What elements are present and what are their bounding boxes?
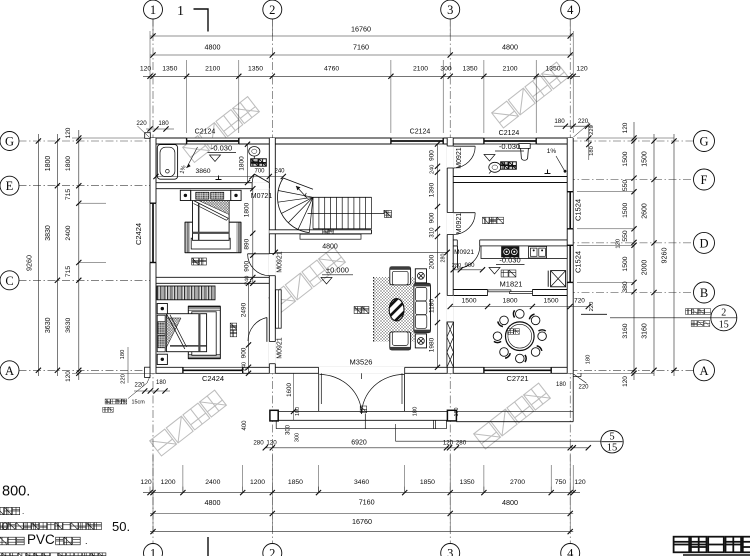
note 散水大样 [686, 309, 711, 315]
svg-text:550: 550 [622, 180, 629, 192]
top extension lines [152, 19, 154, 37]
bedroom1 headboard + pillows [191, 190, 231, 200]
axis circle F right [694, 169, 715, 190]
svg-text:900: 900 [428, 150, 435, 161]
floor drain bath1 [216, 179, 222, 181]
right dim 9260 [673, 134, 675, 376]
left dim details [78, 130, 80, 380]
svg-text:240: 240 [242, 362, 248, 371]
svg-text:900: 900 [244, 260, 251, 271]
axis line E [19, 185, 157, 187]
svg-text:180: 180 [120, 350, 126, 360]
room label bedroom2 卧室 [230, 323, 237, 337]
dining chair [500, 348, 509, 357]
svg-text:220: 220 [578, 118, 589, 125]
room label living 客厅 [354, 307, 369, 314]
svg-text:1350: 1350 [162, 65, 177, 72]
svg-text:1800: 1800 [45, 156, 52, 172]
axis circle D right [694, 232, 715, 253]
svg-text:700: 700 [254, 169, 265, 175]
door opening M0921 bath2 axis3 [447, 146, 454, 168]
room label kitchen 厨房 [501, 270, 516, 277]
svg-text:1500: 1500 [642, 151, 649, 167]
axis circle 1 top [144, 0, 163, 19]
room label dining 餐厅 [508, 329, 520, 335]
floor drain bath2 [545, 173, 551, 175]
door M0921 firewood leaf+arc [453, 212, 475, 214]
svg-text:PVC: PVC [27, 532, 55, 547]
svg-text:800.: 800. [2, 484, 30, 500]
svg-text:16760: 16760 [351, 25, 371, 34]
svg-text:240: 240 [274, 169, 285, 175]
door M3526 entrance double arcs [318, 373, 320, 411]
axis circle E left [0, 176, 19, 195]
left dim line 9260 [37, 134, 39, 376]
svg-text:9260: 9260 [660, 248, 669, 264]
watermark 图纸之家 #1 [183, 97, 260, 163]
axis line D [567, 242, 695, 244]
end table bottom [415, 334, 426, 348]
window C2721 dining bottom [484, 367, 551, 374]
right corner apron step [573, 376, 581, 378]
bedroom2 bench [192, 312, 216, 355]
wall bottom A [150, 367, 573, 373]
bedroom2 dim column [248, 283, 250, 373]
svg-text:.: . [22, 507, 24, 516]
porch step [276, 428, 446, 430]
svg-text:C1524: C1524 [574, 251, 583, 273]
svg-text:180: 180 [556, 382, 567, 388]
left dim groups [56, 134, 58, 376]
svg-text:180: 180 [586, 355, 592, 365]
axis line A [19, 369, 696, 371]
svg-text:2700: 2700 [510, 479, 525, 486]
svg-text:50.: 50. [112, 519, 130, 534]
svg-text:220: 220 [589, 302, 595, 312]
svg-text:120: 120 [65, 127, 72, 138]
svg-text:4800: 4800 [205, 43, 221, 52]
porch column right [447, 410, 456, 421]
bath1 interior dim 3860/700/240 [156, 176, 283, 178]
axis circle 2 top [263, 0, 282, 19]
dining chair [516, 354, 525, 363]
door M0721 leaf+arc [252, 174, 254, 182]
svg-text:M0921: M0921 [456, 147, 463, 169]
NW corner bump [145, 133, 151, 139]
wall D [447, 240, 573, 246]
svg-text:380: 380 [622, 281, 629, 293]
porch column left [270, 410, 278, 421]
door opening M0721 in wall E [252, 182, 269, 189]
svg-text:280: 280 [452, 263, 461, 269]
svg-text:120: 120 [140, 479, 152, 486]
svg-text:1500: 1500 [622, 203, 629, 218]
bottom dim 16760 [150, 531, 573, 533]
axis line 1 [152, 19, 154, 544]
svg-text:3630: 3630 [45, 317, 52, 333]
axis line B [567, 292, 695, 294]
end table top [415, 269, 426, 283]
svg-text:4800: 4800 [205, 498, 221, 507]
svg-text:1500: 1500 [461, 297, 476, 304]
dining chair [516, 310, 525, 319]
svg-text:C1524: C1524 [574, 199, 583, 221]
svg-text:G: G [699, 135, 708, 149]
svg-text:15cm: 15cm [132, 400, 146, 406]
axis circle G right [694, 131, 715, 152]
svg-text:180: 180 [413, 407, 419, 417]
svg-text:16760: 16760 [352, 517, 372, 526]
door opening M3526 entrance wall A [319, 367, 405, 374]
bedroom2 wardrobe [157, 286, 215, 300]
svg-text:750: 750 [555, 479, 567, 486]
watermark 图纸之家 #3 [269, 247, 346, 313]
kitchen fridge [551, 271, 566, 287]
svg-text:120: 120 [616, 239, 622, 249]
bedroom1 nightstand left [180, 190, 190, 200]
svg-text:M0921: M0921 [454, 249, 474, 256]
callout 凸出墙面15cm [105, 399, 127, 404]
svg-text:1800: 1800 [502, 297, 517, 304]
svg-text:280: 280 [456, 440, 467, 447]
watermark 图纸之家 #5 [474, 383, 551, 449]
title 一层平面图 [674, 537, 750, 553]
svg-text:1800: 1800 [239, 156, 246, 171]
window C2124 bath1 top [187, 138, 239, 145]
wall axis2 [269, 138, 275, 373]
svg-text:220: 220 [121, 374, 127, 384]
axis circle 4 bottom [561, 544, 580, 556]
svg-text:C2124: C2124 [499, 130, 520, 137]
svg-text:120: 120 [443, 440, 454, 447]
bedroom2 bed [166, 314, 206, 352]
svg-text:715: 715 [65, 266, 72, 278]
watermark 图纸之家 #2 [492, 62, 569, 128]
axis line 2 [271, 19, 273, 544]
svg-text:220: 220 [589, 125, 595, 135]
svg-text:550: 550 [622, 230, 629, 242]
bottom porch dim 6920 [265, 447, 588, 449]
axis circle A left [0, 361, 19, 380]
bottom extension lines [152, 455, 154, 532]
left corner protrusion [145, 367, 150, 377]
axis circle B right [694, 282, 715, 303]
svg-text:7160: 7160 [353, 43, 369, 52]
svg-text:1: 1 [177, 4, 184, 19]
svg-text:280: 280 [253, 440, 264, 447]
top dim line details [143, 75, 580, 77]
svg-text:2400: 2400 [205, 479, 220, 486]
room label firewood 柴火房 [483, 217, 504, 224]
svg-text:2100: 2100 [413, 65, 428, 72]
svg-text:.: . [85, 536, 88, 546]
svg-text:180: 180 [158, 120, 169, 127]
toilet bath2 [519, 144, 530, 149]
door M0921 kitchen leaf+arc [457, 246, 459, 268]
svg-text:220: 220 [136, 120, 147, 127]
svg-text:300: 300 [295, 433, 301, 442]
kitchen door dim 280/900 [453, 269, 482, 271]
bottom dim groups [150, 513, 573, 515]
svg-text:1800: 1800 [244, 202, 251, 217]
axis line G [19, 140, 696, 142]
svg-text:120: 120 [622, 376, 629, 387]
staircase straight run [313, 196, 372, 198]
svg-text:4760: 4760 [324, 65, 339, 72]
svg-text:2: 2 [721, 307, 726, 318]
svg-text:1350: 1350 [462, 65, 477, 72]
wall axis3 [447, 138, 453, 373]
svg-text:-0.030: -0.030 [499, 256, 520, 265]
axis circle 4 top [561, 0, 580, 19]
tv cabinet living [276, 290, 282, 328]
watermark 图纸之家 #4 [150, 390, 227, 456]
svg-text:300: 300 [440, 65, 452, 72]
kitchen counter [481, 246, 567, 259]
staircase winders fan [277, 178, 309, 233]
svg-text:F: F [701, 173, 708, 187]
svg-text:±0.000: ±0.000 [326, 266, 349, 275]
svg-text:2: 2 [269, 547, 275, 556]
axis line 3 [449, 19, 451, 544]
axis circle A right [694, 360, 715, 381]
svg-text:9260: 9260 [25, 255, 34, 271]
svg-text:7160: 7160 [359, 498, 375, 507]
svg-text:300: 300 [286, 424, 292, 435]
right dim details [633, 122, 635, 380]
svg-text:G: G [5, 135, 14, 149]
svg-text:220: 220 [578, 385, 589, 391]
note line PVC [0, 537, 24, 545]
window C1524 kitchen right [567, 245, 574, 282]
washbasin bath1 [249, 147, 260, 157]
svg-text:1: 1 [150, 3, 156, 17]
svg-text:1390: 1390 [428, 182, 435, 197]
armchair bottom [390, 332, 411, 350]
dining chair [493, 332, 502, 341]
stair up arrow [296, 186, 308, 199]
bedroom1 rug [185, 222, 241, 253]
bedroom1 dim column [252, 189, 254, 284]
svg-text:1980: 1980 [428, 337, 435, 352]
svg-text:-0.030: -0.030 [211, 144, 232, 153]
svg-text:4800: 4800 [322, 244, 338, 251]
svg-text:240: 240 [429, 165, 435, 174]
svg-text:890: 890 [244, 238, 251, 249]
note line 5 partial [0, 553, 106, 556]
svg-text:3860: 3860 [195, 168, 210, 175]
axis line F [567, 179, 695, 181]
svg-text:M0921: M0921 [277, 251, 284, 273]
svg-text:2600: 2600 [642, 203, 649, 219]
kitchen sink [529, 246, 547, 258]
right extension lines [577, 191, 634, 193]
window C2124 stair top [391, 138, 443, 145]
svg-text:900: 900 [241, 347, 248, 358]
window C2124 bath2 top [484, 138, 536, 145]
slope line bath2 [556, 156, 564, 170]
wall F [447, 177, 573, 183]
axis circle 3 top [441, 0, 460, 19]
detail ref line 5/15 [395, 424, 397, 441]
bottom dim details [143, 492, 580, 494]
svg-text:1500: 1500 [622, 151, 629, 166]
svg-text:C2124: C2124 [195, 129, 216, 136]
svg-text:180: 180 [589, 146, 595, 156]
top dim line groups 4800 7160 4800 [150, 54, 573, 56]
svg-text:120: 120 [622, 122, 629, 133]
svg-text:-0.030: -0.030 [499, 142, 520, 151]
svg-text:15: 15 [719, 319, 729, 330]
svg-text:D: D [699, 236, 708, 250]
svg-text:3: 3 [447, 3, 453, 17]
svg-text:M0921: M0921 [456, 213, 463, 235]
svg-text:280: 280 [440, 254, 446, 263]
svg-text:3160: 3160 [642, 323, 649, 339]
axis circle G left [0, 132, 19, 151]
svg-text:1%: 1% [547, 148, 557, 155]
svg-text:715: 715 [65, 189, 72, 201]
right dim groups [653, 134, 655, 376]
bath1 vertical dim 1800 [247, 144, 249, 182]
svg-text:1500: 1500 [622, 256, 629, 271]
svg-text:900: 900 [428, 212, 435, 223]
dining dim row 1500/1800/1500/720 [450, 306, 588, 308]
svg-text:2100: 2100 [205, 65, 220, 72]
bedroom1 bed [193, 200, 230, 241]
svg-text:3630: 3630 [65, 318, 72, 333]
living hall dim column [437, 144, 439, 367]
svg-text:M0721: M0721 [251, 193, 273, 200]
svg-text:5: 5 [609, 432, 614, 443]
dining chair [531, 316, 540, 325]
living room carpet [374, 277, 416, 342]
svg-text:180: 180 [454, 408, 460, 417]
axis line C [19, 279, 157, 281]
terrace lines right of porch [456, 410, 573, 412]
svg-text:220: 220 [134, 383, 145, 389]
armchair top [390, 267, 411, 285]
svg-text:C2424: C2424 [134, 223, 143, 245]
bedroom1 bench at bed foot [191, 238, 230, 249]
svg-text:B: B [700, 286, 708, 300]
door M0921 bedroom2 leaf+arc [266, 318, 268, 342]
svg-text:C: C [5, 274, 13, 288]
bedroom1 nightstand right [231, 190, 241, 200]
note line 户自理 [0, 507, 20, 514]
dining table round [506, 322, 535, 351]
window C1524 firewood right [567, 192, 574, 229]
svg-text:1850: 1850 [420, 479, 435, 486]
svg-text:3460: 3460 [354, 479, 369, 486]
coffee table oval [386, 294, 408, 324]
svg-text:720: 720 [574, 297, 585, 304]
window C2424 bedroom2 bottom [183, 367, 243, 374]
door opening M0921 kitchen wall D [457, 239, 479, 246]
svg-text:4800: 4800 [502, 43, 518, 52]
svg-text:M1821: M1821 [500, 280, 523, 289]
wall right axis4 [567, 138, 573, 373]
wall top G [150, 138, 573, 144]
porch slab [278, 410, 447, 412]
svg-text:1180: 1180 [428, 299, 435, 313]
svg-text:4: 4 [567, 547, 574, 556]
wall C [150, 277, 275, 283]
door M0921 bedroom1 leaf+arc [248, 253, 270, 255]
svg-text:120: 120 [576, 65, 588, 72]
svg-text:400: 400 [242, 420, 248, 431]
svg-text:1850: 1850 [288, 479, 303, 486]
axis circle 3 bottom [441, 544, 460, 556]
svg-text:100: 100 [295, 407, 301, 416]
svg-text:E: E [6, 179, 14, 193]
porch down mark [360, 406, 367, 413]
svg-text:A: A [699, 364, 708, 378]
axis circle 1 bottom [144, 544, 163, 556]
svg-text:120: 120 [65, 371, 72, 382]
detail circle 2/15 [711, 305, 737, 331]
svg-text:180: 180 [554, 118, 565, 125]
svg-text:2000: 2000 [642, 260, 649, 276]
door M0921 bath2 leaf+arc [453, 145, 475, 147]
svg-text:120: 120 [266, 440, 277, 447]
screen partition axis3 living-dining [447, 322, 454, 367]
svg-text:2100: 2100 [502, 65, 517, 72]
svg-text:2: 2 [269, 3, 275, 17]
door M1821 sliding leaves [488, 290, 511, 292]
svg-text:15: 15 [607, 443, 618, 454]
slope arrow bath1 [187, 147, 198, 168]
washbasin bath2 [489, 162, 501, 172]
svg-text:C2424: C2424 [202, 374, 224, 383]
kitchen stove [502, 247, 520, 257]
svg-text:1800: 1800 [65, 156, 72, 171]
top dim line 16760 [150, 35, 573, 37]
svg-text:1200: 1200 [250, 479, 265, 486]
axis line 4 [569, 19, 571, 544]
svg-text:4800: 4800 [502, 498, 518, 507]
stair landing wall [269, 230, 371, 234]
svg-text:C2124: C2124 [410, 129, 431, 136]
svg-text:900: 900 [464, 263, 475, 269]
svg-text:1350: 1350 [459, 479, 474, 486]
svg-text:1350: 1350 [545, 65, 560, 72]
wall E [150, 183, 275, 189]
svg-text:120: 120 [140, 65, 152, 72]
bedroom2 rug [188, 306, 220, 359]
svg-text:180: 180 [156, 380, 167, 386]
door opening M1821 wall B [488, 289, 533, 296]
svg-text:M3526: M3526 [350, 358, 373, 367]
left extension lines [20, 140, 150, 142]
svg-text:C2721: C2721 [506, 374, 528, 383]
sofa 3-seat right [414, 283, 431, 332]
dining chair [531, 348, 540, 357]
dining chair [538, 332, 547, 341]
svg-text:3830: 3830 [45, 225, 52, 241]
stair landing cabinet [300, 234, 361, 239]
room label bath1 主卫 [251, 159, 267, 166]
wall B [447, 290, 573, 296]
detail circle 5/15 [601, 431, 623, 453]
svg-text:3: 3 [447, 547, 453, 556]
svg-text:2400: 2400 [65, 225, 72, 240]
opening living-dining axis3 [447, 296, 454, 323]
svg-text:6920: 6920 [351, 439, 367, 446]
axis circle 2 bottom [263, 544, 282, 556]
door opening M0921 firewood axis3 [447, 213, 454, 235]
svg-text:4: 4 [567, 3, 574, 17]
